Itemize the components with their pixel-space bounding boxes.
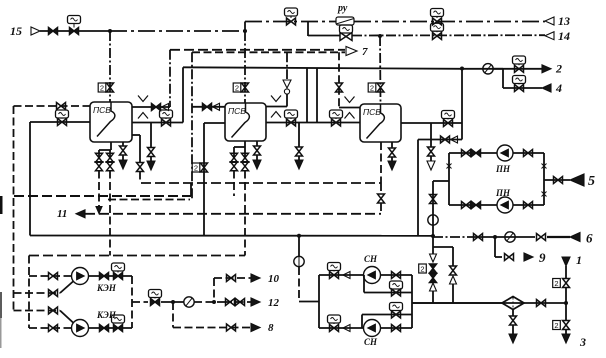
wire riser from PSV2 outlet x287 <box>286 52 288 79</box>
check valve on SN2 inlet <box>343 325 350 332</box>
wire x110 down to suction line <box>109 171 111 256</box>
junction x566 y303 <box>564 301 568 305</box>
reducing unit RU <box>336 17 354 25</box>
wire SN1 bypass riser x364 <box>363 275 365 293</box>
tick mark on PN manifold left <box>447 164 452 169</box>
valve on SN2 discharge <box>392 325 401 332</box>
wire PSV1 left y122 from x30 <box>30 121 90 123</box>
tick mark on PN manifold right lower <box>542 192 547 197</box>
wire KEN outlet y302 <box>132 301 148 303</box>
wire SN suction y301.5 <box>299 301 319 303</box>
wire SN suction drop <box>298 267 300 302</box>
valve on PSV1 inlet <box>57 103 66 110</box>
valve on SN1 discharge <box>392 272 401 279</box>
wire drop x317 from header <box>316 68 318 123</box>
wire header continuation to restrictor <box>462 68 503 70</box>
wire PSV1 right y122.5 <box>132 122 183 124</box>
motor valve on KEN outlet <box>149 290 162 298</box>
vent chevrons PSV3 inlet <box>345 97 355 103</box>
wire x433 stack top <box>432 237 434 254</box>
restrictor washer on KEN outlet <box>184 297 194 307</box>
wire SN1 branch y275 <box>319 274 364 276</box>
valves on PN1 inlet <box>462 150 471 157</box>
valve 2 on PSV1 steam inlet <box>98 83 106 92</box>
junction on line 15 x110 <box>108 29 112 33</box>
outlet arrow 10 <box>251 274 260 282</box>
wire x381 drain to line 11 <box>380 183 382 194</box>
motor valve on SN2 inlet <box>328 315 341 323</box>
wire line 11 y214 <box>85 213 381 215</box>
wire line 6 to arrow <box>547 236 570 238</box>
svg-text:СН: СН <box>364 254 378 264</box>
wire drop x462 from header <box>461 69 463 140</box>
pump KEN2 <box>72 320 89 337</box>
wire SN2 bypass riser x362 <box>361 315 363 329</box>
wire line 6 y237.5 <box>433 236 470 238</box>
svg-text:9: 9 <box>539 250 546 265</box>
motor valve on PSV1 right y122.5 <box>160 110 173 118</box>
outlet arrow 9 <box>524 253 533 261</box>
check valve on PSV2 inlet <box>213 103 220 110</box>
wire PSV2 outlet y106.5 <box>266 106 287 108</box>
valve on side drain x140 <box>137 163 144 172</box>
drain valve pair x110 <box>109 150 111 158</box>
motor valve on PSV3 inlet y122.5 <box>330 110 343 118</box>
valve on PN1 discharge <box>524 150 533 157</box>
pump SN2 <box>364 320 381 337</box>
outlet arrow 12 <box>251 298 260 306</box>
drain valve pair x234 <box>233 147 235 158</box>
motor valve on KEN1 discharge <box>112 263 125 271</box>
valve on drain x392 <box>389 148 396 157</box>
wire line 8 <box>173 327 252 329</box>
drain valve pair x99 <box>98 150 100 158</box>
svg-text:3: 3 <box>579 335 586 349</box>
wire PSV1 outlet y107 <box>132 106 170 108</box>
wire stub to x453 <box>433 246 453 248</box>
wire upper steam header y21.5 to terminal 13 <box>245 21 336 23</box>
svg-text:2: 2 <box>554 321 558 330</box>
drain branch x123 from PSV1 bottom <box>122 142 124 146</box>
svg-text:ПСВ: ПСВ <box>363 107 381 117</box>
valve on PN2 discharge <box>524 202 533 209</box>
valve on bypass y139.5 <box>441 136 450 143</box>
wire KEN2 discharge <box>89 327 133 329</box>
motor valve on header y21.5 <box>285 8 298 16</box>
wire PN2 branch y205 <box>449 204 497 206</box>
motor valve on KEN2 discharge <box>112 315 125 323</box>
restrictor washer on line 6 <box>505 232 515 242</box>
wire PSV2 bottom stub <box>244 141 246 147</box>
drain arrow x257 <box>256 155 258 160</box>
wire diagonal into pump KEN2 <box>60 311 73 323</box>
wire branch x214 up to line 10 <box>213 278 215 302</box>
wire PN feed y181 <box>433 180 449 182</box>
outlet arrow 2 <box>542 65 551 73</box>
inlet arrow 15 <box>31 27 40 35</box>
valve on drain x257 <box>254 146 261 155</box>
svg-text:2: 2 <box>194 163 198 172</box>
motor valve on line 4 <box>513 76 526 84</box>
outlet arrow 6 <box>570 233 580 242</box>
pump SN1 <box>364 267 381 284</box>
wire drop x339 to PSV3 inlet <box>338 52 340 107</box>
valve on drain x381 <box>378 194 385 203</box>
wire left riser x30 <box>29 122 31 236</box>
wire drain header y196 <box>14 195 191 197</box>
wire PSV3 inlet y108 <box>339 107 360 109</box>
check valve on PSV1 outlet <box>162 104 169 111</box>
wire collector line y52 <box>192 51 345 53</box>
check cone on x433 stack <box>430 254 437 262</box>
heater PSV3 <box>360 104 401 142</box>
wire riser from PSV1 outlet x170 <box>169 50 171 107</box>
valve on PSV2 inlet <box>203 103 212 110</box>
wire PSV1 inlet y106 <box>14 105 91 107</box>
svg-text:КЭН: КЭН <box>96 283 117 293</box>
wire PN right manifold x544 <box>543 153 545 205</box>
svg-text:15: 15 <box>10 24 22 38</box>
wire SN1 bypass y292.5 <box>364 292 412 294</box>
svg-text:ПН: ПН <box>495 188 511 198</box>
wire x245 down to suction line <box>244 171 246 256</box>
motor valve on PSV1 left y122 <box>56 110 69 118</box>
wire x99 down to line 11 <box>98 171 100 208</box>
wire diagonal into pump KEN1 <box>60 282 73 294</box>
motor valve on SN1 bypass <box>390 281 403 289</box>
drain branch x151 from y122.5 <box>150 123 152 149</box>
wire x453 to y303 <box>452 284 454 303</box>
valve on KEN suction y276 <box>49 273 58 280</box>
restrictor washer on x433 <box>428 215 438 225</box>
motor valve on SN1 inlet <box>328 263 341 271</box>
valve 2 on line 3 <box>553 321 561 330</box>
wire PN left manifold x449 <box>448 153 450 205</box>
valve on line 6 right <box>537 234 546 241</box>
valve on KEN suction y310.5 <box>49 307 58 314</box>
vent chevrons PSV1 outlet <box>138 96 148 102</box>
junction header x462 <box>460 67 464 71</box>
svg-text:2: 2 <box>100 83 104 92</box>
motor valve with actuator on line 15 <box>68 16 81 24</box>
svg-text:2: 2 <box>554 279 558 288</box>
heater PSV1 <box>90 102 132 142</box>
svg-text:10: 10 <box>268 273 280 285</box>
valve on PSV3 inlet drop <box>336 83 343 92</box>
valve 2 on line 1 <box>553 279 561 288</box>
wire riser x192 to PSV2 inlet <box>191 52 193 199</box>
wire PN2 discharge <box>513 204 544 206</box>
junction manifold-feed x433 <box>431 234 435 238</box>
wire PN1 discharge <box>513 152 544 154</box>
wire KEN suction y328 <box>29 327 72 329</box>
drain valve pair x245 <box>244 147 246 158</box>
wire outlet header y68.5 <box>183 67 462 69</box>
wire to distribution junction <box>194 301 224 303</box>
junction x173 y302 <box>171 300 175 304</box>
wire connector x191 <box>190 183 192 196</box>
svg-text:СН: СН <box>364 337 378 347</box>
wire drop from 1 <box>565 266 567 279</box>
svg-text:6: 6 <box>586 231 593 246</box>
vent chevrons PSV2 outlet <box>271 96 281 102</box>
wire suction header y255.5 <box>29 255 245 257</box>
valve on line 8 <box>227 324 236 331</box>
svg-text:2: 2 <box>555 62 562 76</box>
wire left riser x13.5 <box>13 106 15 311</box>
outlet arrow 4 <box>542 84 551 92</box>
wire main condensate y303 <box>412 302 566 304</box>
svg-text:ПСВ: ПСВ <box>228 106 246 116</box>
wire PSV1 bottom stub <box>110 142 112 150</box>
valve after diamond <box>537 300 546 307</box>
drain arrow below diamond <box>509 334 517 343</box>
wire KEN suction y293 <box>14 292 61 294</box>
wire SN1 discharge <box>381 274 413 276</box>
wire x234 down <box>233 171 235 197</box>
valves on line 12 <box>226 299 235 306</box>
outlet arrow 8 <box>251 324 260 332</box>
valve on line 6 left <box>474 234 483 241</box>
wire KEN suction y310.5 <box>14 310 61 312</box>
wire x381 valve to line 11 <box>380 203 382 214</box>
junction x380 y35.5 <box>378 34 382 38</box>
wire SN2 branch y328 <box>319 327 364 329</box>
wire drain header y199.5 <box>108 199 190 201</box>
svg-text:13: 13 <box>558 14 570 28</box>
wire PSV3 bypass y139.5 <box>418 139 462 141</box>
wire main steam line y31 <box>40 30 110 32</box>
outlet arrow 5 <box>570 174 584 186</box>
drain branch x257 from PSV2 bottom <box>256 141 258 146</box>
svg-text:12: 12 <box>268 297 280 309</box>
valve 2 on PSV3 steam inlet <box>368 83 376 92</box>
wire PSV2 inlet y107 <box>192 106 225 108</box>
scan edge artifact left <box>0 196 3 214</box>
pump PN1 <box>497 145 513 161</box>
wire PSV2 right y122.5 <box>266 122 360 124</box>
outlet arrow 14 <box>545 32 554 40</box>
wire PSV3 bottom drain x381 <box>380 142 382 183</box>
motor valve on line 13 right <box>431 9 444 17</box>
motor valve on PSV3 outlet <box>442 111 455 119</box>
wire KEN outlet to restrictor <box>161 301 184 303</box>
valve on diamond drain <box>510 316 517 325</box>
valve on line 9 <box>505 254 514 261</box>
drain arrow x299 <box>298 156 300 160</box>
wire branch riser x308 <box>307 22 309 37</box>
junction x299 manifold <box>297 234 301 238</box>
wire SN left manifold x319 <box>318 275 320 328</box>
valve 2 on PSV2 steam inlet <box>233 83 241 92</box>
svg-text:8: 8 <box>268 322 274 334</box>
wire KEN discharge manifold x132 <box>131 276 133 328</box>
valve on drain x123 <box>120 146 127 155</box>
wire manifold y235.5 <box>30 235 433 237</box>
heater PSV2 <box>225 103 266 141</box>
wire line 3 to arrow <box>565 330 567 335</box>
drain branch x299 from y122.5 <box>298 123 300 148</box>
wire line 2 <box>493 68 542 70</box>
svg-text:11: 11 <box>57 208 67 220</box>
drain arrow x392 <box>391 157 393 161</box>
drain arrow x151 <box>150 157 152 162</box>
svg-text:ПН: ПН <box>495 164 511 174</box>
mixer diamond <box>502 297 524 310</box>
valve on KEN1 discharge <box>100 273 109 280</box>
wire riser x307 to header <box>306 68 308 123</box>
wire riser x183 to header <box>182 67 184 122</box>
valve on line 10 <box>227 275 236 282</box>
motor valve on SN2 bypass <box>390 303 403 311</box>
wire drain header y183 <box>141 182 381 184</box>
wire steam drop to PSV1 <box>109 31 111 102</box>
wire diamond drain to arrow <box>512 325 514 334</box>
wire steam drop to PSV2 <box>244 31 246 103</box>
wire line 10 <box>214 277 252 279</box>
cone up on x453 <box>450 276 457 284</box>
second valve on x433 stack <box>430 274 437 283</box>
svg-text:ПСВ: ПСВ <box>93 105 111 115</box>
wire x433 stack bottom <box>432 291 434 303</box>
wire line 5 <box>544 179 570 181</box>
drain arrow x123 <box>122 155 124 160</box>
svg-text:2: 2 <box>420 264 424 273</box>
check valve on riser x287 <box>283 80 291 88</box>
wire collector line y50 <box>170 49 345 51</box>
wire SN right manifold x412 <box>411 275 413 328</box>
valve on drain x151 <box>148 148 155 157</box>
motor valve below RU <box>340 25 353 33</box>
motor valve on PSV2 right y122.5 <box>285 110 298 118</box>
check valve on SN1 inlet <box>343 272 350 279</box>
valve on line 5 <box>554 177 563 184</box>
svg-text:2: 2 <box>370 83 374 92</box>
outlet arrow 3 <box>562 334 570 343</box>
vent outlet x431 <box>430 156 432 161</box>
wire SN outlet y303 <box>412 302 503 304</box>
valve on drain x299 <box>296 147 303 156</box>
outlet arrow 7 <box>346 47 357 56</box>
wire drop x433 from PN feed <box>432 181 434 236</box>
junction x495 y237.5 <box>493 235 497 239</box>
restrictor washer on SN suction <box>294 256 304 266</box>
wire PSV2 left y123 drain <box>204 122 225 124</box>
wire left drop x29 to KEN <box>28 256 30 329</box>
line 11 arrow <box>76 210 85 218</box>
svg-text:1: 1 <box>576 253 582 267</box>
svg-text:4: 4 <box>555 81 562 95</box>
pump KEN1 <box>72 268 89 285</box>
wire branch to line 4 <box>502 69 504 88</box>
wire KEN suction y276 <box>29 275 72 277</box>
valve on KEN2 discharge <box>100 325 109 332</box>
wire PSV3 outlet y123 <box>401 122 462 124</box>
outlet arrow 13 <box>545 17 554 25</box>
valve 2 on PSV2 left drain <box>192 163 200 172</box>
valve on KEN suction y328 <box>49 325 58 332</box>
vent branch x431 from y123 <box>430 123 432 147</box>
wire to junction y303 <box>565 288 567 304</box>
wire PN1 branch y153 <box>449 152 497 154</box>
svg-text:2: 2 <box>235 83 239 92</box>
wire SN2 bypass y314.5 <box>362 314 412 316</box>
motor valve on line 2 <box>513 56 526 64</box>
tick mark on PN manifold right upper <box>542 164 547 169</box>
diamond drain <box>512 310 514 317</box>
valve on line 15 <box>49 28 58 35</box>
svg-text:7: 7 <box>362 46 368 58</box>
svg-text:ру: ру <box>337 3 348 14</box>
wire riser x245 to upper header <box>244 22 246 32</box>
wire steam drop x380 to PSV3 <box>379 36 382 104</box>
arrow into line 11 x99 <box>96 207 102 214</box>
junction x214 y302 <box>212 300 216 304</box>
wire KEN1 discharge <box>89 275 133 277</box>
wire line 12 <box>224 301 252 303</box>
check valve on bypass y139.5 <box>451 136 458 143</box>
valve on KEN suction y293 <box>49 290 58 297</box>
valve on x433 <box>430 195 437 204</box>
inlet arrow 1 <box>562 257 570 266</box>
valve 2 on x433 stack <box>419 264 427 273</box>
wire drop x299 from manifold <box>298 236 300 256</box>
wire drop x418 to manifold <box>417 140 419 236</box>
wire SN2 discharge <box>381 327 413 329</box>
drain branch x392 from PSV3 bottom <box>391 142 393 148</box>
cone up on x433 stack <box>430 283 437 291</box>
restrictor washer on line 2 <box>483 64 493 74</box>
wire branch to line 9 <box>494 237 496 257</box>
wire branch x173 down to line 8 <box>172 302 174 328</box>
wire line 3 down <box>565 303 567 321</box>
junction on line 15 x245 <box>243 29 247 33</box>
valve on PSV1 outlet <box>152 104 161 111</box>
valves on PN2 inlet <box>462 202 471 209</box>
pump PN2 <box>497 197 513 213</box>
motor valve on line 14 right <box>431 23 444 31</box>
valve on x453 <box>450 266 457 275</box>
wire lower steam header y35.5 to terminal 14 <box>308 35 340 37</box>
side drain PSV1 x140 <box>132 134 140 136</box>
wire x140 to drain header <box>139 172 141 184</box>
svg-text:14: 14 <box>558 29 570 43</box>
svg-text:5: 5 <box>588 174 595 189</box>
valve on vent x431 <box>428 147 435 156</box>
